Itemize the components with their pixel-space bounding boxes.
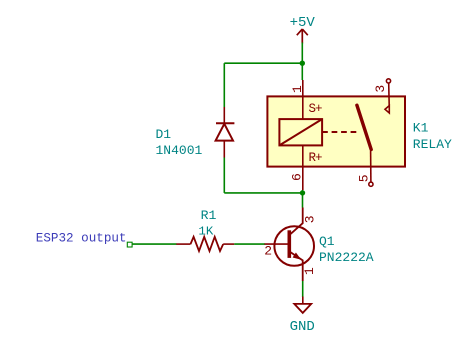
power flag +5V <box>290 15 316 44</box>
wire +5V stem <box>301 43 303 64</box>
svg-text:D1: D1 <box>156 127 172 142</box>
wire top horizontal <box>224 62 302 64</box>
svg-text:+5V: +5V <box>290 15 316 31</box>
svg-text:R1: R1 <box>201 208 217 223</box>
wire resistor to transistor base <box>234 243 265 245</box>
svg-text:1K: 1K <box>198 224 213 238</box>
svg-text:2: 2 <box>264 243 272 258</box>
relay coil <box>279 119 322 145</box>
transistor Q1 <box>265 208 315 282</box>
svg-text:K1: K1 <box>413 120 429 135</box>
relay switch bar <box>357 105 371 149</box>
relay pin 5 <box>369 151 373 187</box>
svg-text:5: 5 <box>357 174 372 182</box>
svg-text:1: 1 <box>302 267 317 275</box>
svg-text:ESP32 output: ESP32 output <box>36 232 127 246</box>
svg-text:1: 1 <box>290 85 305 93</box>
relay pin 3 <box>385 79 391 113</box>
hierarchical label ESP32 output <box>36 232 132 247</box>
wire junction to relay pin 1 <box>301 63 303 80</box>
relay pin 6 <box>302 145 304 190</box>
svg-text:PN2222A: PN2222A <box>319 250 374 265</box>
wire label to resistor <box>132 243 176 245</box>
relay pin 1 <box>302 80 304 119</box>
svg-text:R+: R+ <box>309 151 323 165</box>
svg-text:RELAY: RELAY <box>413 137 452 152</box>
relay K1 body <box>267 96 405 166</box>
diode D1 <box>216 107 235 158</box>
junction top node <box>300 61 305 66</box>
svg-text:S+: S+ <box>309 102 323 116</box>
relay dashed link <box>322 131 360 133</box>
ground symbol <box>294 297 311 313</box>
svg-text:Q1: Q1 <box>319 234 335 249</box>
svg-text:3: 3 <box>303 215 318 223</box>
svg-text:6: 6 <box>289 173 304 181</box>
svg-text:3: 3 <box>373 85 388 93</box>
wire emitter to ground <box>302 281 304 297</box>
junction bottom node <box>300 190 305 195</box>
svg-text:GND: GND <box>290 319 315 335</box>
svg-text:1N4001: 1N4001 <box>156 143 203 158</box>
wire junction to collector <box>302 190 304 208</box>
wire diode bottom branch <box>223 158 225 193</box>
resistor R1 <box>176 237 234 251</box>
wire diode top branch <box>223 63 225 107</box>
wire bottom horizontal <box>224 192 302 194</box>
